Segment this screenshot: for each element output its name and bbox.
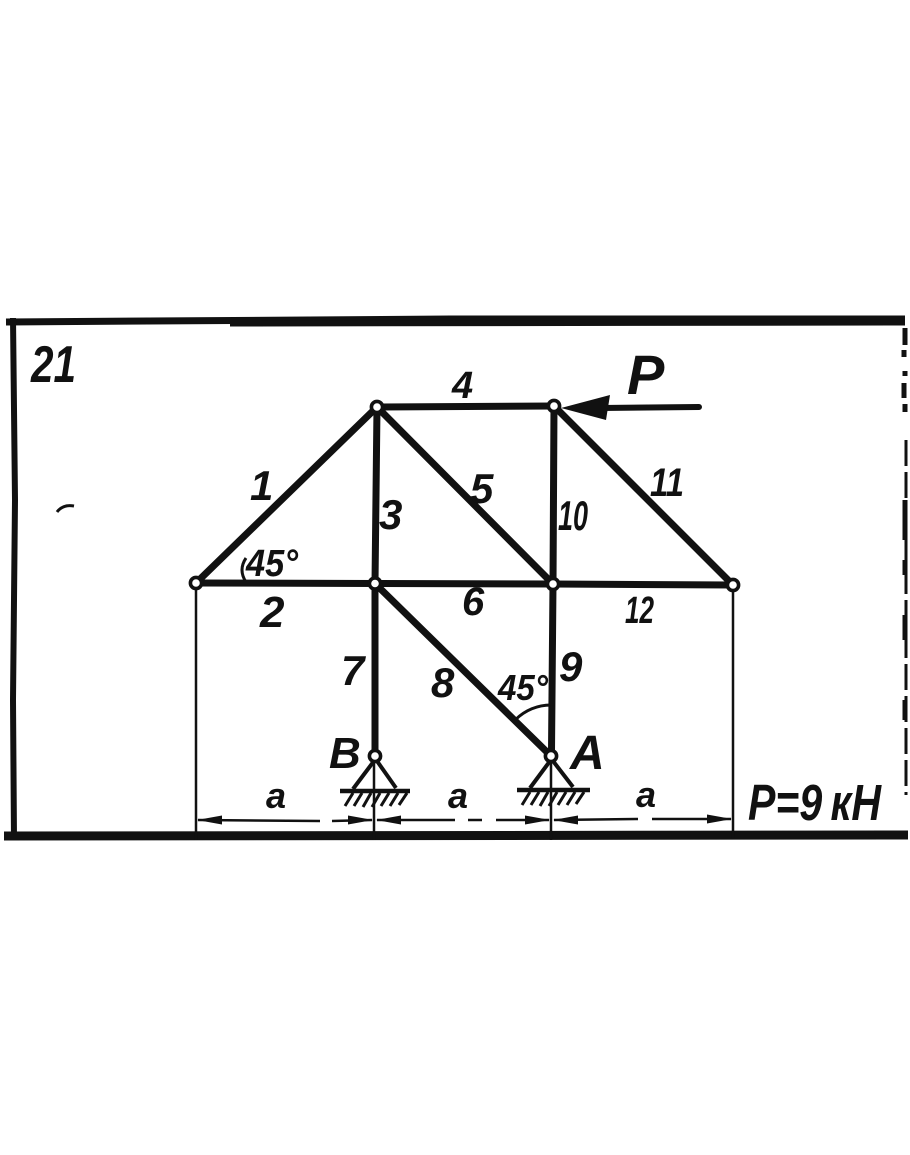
svg-text:8: 8 [431, 659, 455, 706]
svg-text:12: 12 [625, 590, 654, 632]
svg-text:B: B [329, 729, 361, 778]
svg-text:45°: 45° [497, 667, 548, 708]
svg-text:45°: 45° [245, 543, 299, 585]
svg-text:21: 21 [30, 336, 76, 394]
svg-text:1: 1 [250, 462, 273, 509]
svg-text:10: 10 [558, 492, 588, 539]
svg-text:a: a [266, 775, 286, 816]
svg-text:P=9 кН: P=9 кН [748, 774, 882, 831]
svg-text:A: A [569, 727, 605, 780]
svg-text:9: 9 [559, 643, 583, 690]
svg-text:7: 7 [341, 647, 366, 694]
svg-text:5: 5 [470, 465, 494, 512]
svg-text:a: a [636, 774, 656, 815]
svg-text:11: 11 [650, 461, 684, 505]
svg-text:P: P [627, 343, 665, 406]
svg-text:a: a [448, 775, 468, 816]
svg-text:2: 2 [259, 588, 285, 637]
svg-text:4: 4 [451, 365, 473, 407]
svg-text:3: 3 [379, 491, 402, 538]
svg-text:6: 6 [462, 580, 485, 624]
